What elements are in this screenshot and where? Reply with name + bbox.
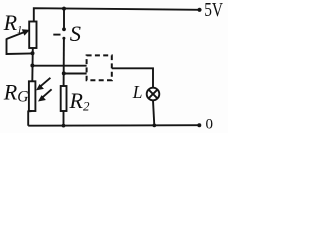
junction: node B on switch/R2 wire <box>62 71 66 75</box>
potentiometer R1 body <box>29 22 36 49</box>
svg-text:L: L <box>132 82 143 102</box>
wire: R2 bottom to 0 rail <box>63 111 65 126</box>
svg-text:R2: R2 <box>69 88 90 113</box>
wire: box output to lamp <box>112 68 153 88</box>
svg-text:R1: R1 <box>3 10 23 36</box>
terminal dot 5V <box>197 8 201 12</box>
junction: divider node A tap <box>30 64 34 68</box>
RG light arrow 1 <box>36 78 50 91</box>
switch S upper lead <box>63 9 65 28</box>
junction: R2 on 0 rail <box>62 124 66 128</box>
RG light arrow 2 <box>38 89 52 101</box>
wire: switch S to R2 top <box>63 38 65 86</box>
wire: lamp to 0 rail <box>153 100 154 125</box>
svg-text:S: S <box>70 21 81 46</box>
terminal dot 0 <box>197 123 201 127</box>
junction: wiper joins R1 bottom lead <box>31 51 35 55</box>
wire: RG bottom to 0 rail <box>28 111 32 126</box>
lamp L <box>147 88 160 101</box>
svg-text:0: 0 <box>206 117 214 133</box>
R1 wiper arrow <box>7 29 30 39</box>
switch S upper contact dot <box>62 27 66 31</box>
switch S lower contact dot <box>62 37 65 40</box>
wire: node B to control box input 2 <box>64 73 87 75</box>
wire: node A to control box input 1 <box>32 65 86 67</box>
svg-text:RG: RG <box>3 79 29 105</box>
0V return rail <box>28 124 199 127</box>
control unit dashed box <box>87 55 112 80</box>
photoresistor RG body <box>29 81 36 111</box>
svg-text:5V: 5V <box>204 0 223 21</box>
resistor R2 body <box>61 86 67 111</box>
wire: R1 bottom to RG top <box>31 48 34 81</box>
+5V supply rail <box>34 8 200 22</box>
junction: lamp on 0 rail <box>152 124 156 128</box>
junction: switch branch on 5V rail <box>62 7 66 11</box>
switch S blade tick <box>53 34 60 36</box>
wire: R1 wiper return loop <box>7 39 33 55</box>
